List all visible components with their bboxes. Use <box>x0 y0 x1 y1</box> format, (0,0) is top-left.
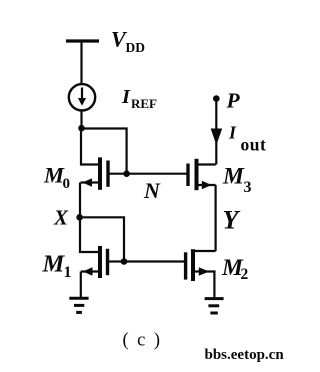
transistor M0 <box>81 157 127 189</box>
svg-text:0: 0 <box>63 176 71 192</box>
Iout current arrow <box>211 129 223 146</box>
svg-text:Y: Y <box>223 206 241 235</box>
svg-text:1: 1 <box>64 264 72 281</box>
wire node to M0 drain <box>81 129 99 165</box>
svg-text:M: M <box>222 164 245 190</box>
node P dot <box>213 95 220 102</box>
current source IREF <box>69 84 95 110</box>
node X dot <box>76 214 83 221</box>
svg-text:N: N <box>143 178 161 203</box>
VDD supply symbol <box>66 41 99 85</box>
svg-text:bbs.eetop.cn: bbs.eetop.cn <box>205 347 285 363</box>
wire M3 drain up to node P <box>215 99 217 165</box>
wire M0 source to node X <box>79 183 81 218</box>
wire M1 drain to X <box>80 217 99 252</box>
svg-text:2: 2 <box>241 266 249 283</box>
wire diode connection node to N <box>82 129 127 174</box>
svg-text:out: out <box>241 135 267 155</box>
wire X to gate junction of M1/M2 <box>80 217 124 261</box>
svg-text:(c): (c) <box>123 331 169 351</box>
svg-text:I: I <box>228 123 237 143</box>
transistor M1 <box>81 246 124 278</box>
ground (left) <box>69 298 88 312</box>
junction node N dot <box>123 170 130 177</box>
wire M1 source to ground <box>80 272 82 298</box>
svg-text:M: M <box>42 251 66 278</box>
wire current source to node <box>80 110 82 128</box>
transistor M2 <box>186 249 216 281</box>
wire gate junction to M2 gate <box>124 260 184 262</box>
svg-text:3: 3 <box>244 179 252 196</box>
svg-text:REF: REF <box>131 96 157 111</box>
junction dot at M1 gate <box>121 258 128 265</box>
wire M2 source to ground <box>213 272 215 298</box>
svg-text:X: X <box>53 206 69 230</box>
svg-text:P: P <box>226 89 241 113</box>
wire M2 drain up to M3 source (node Y) <box>215 185 217 251</box>
transistor M3 <box>127 159 216 190</box>
ground (right) <box>205 299 224 313</box>
svg-text:I: I <box>121 86 131 108</box>
svg-text:DD: DD <box>126 40 146 55</box>
junction node below IREF <box>78 125 85 132</box>
